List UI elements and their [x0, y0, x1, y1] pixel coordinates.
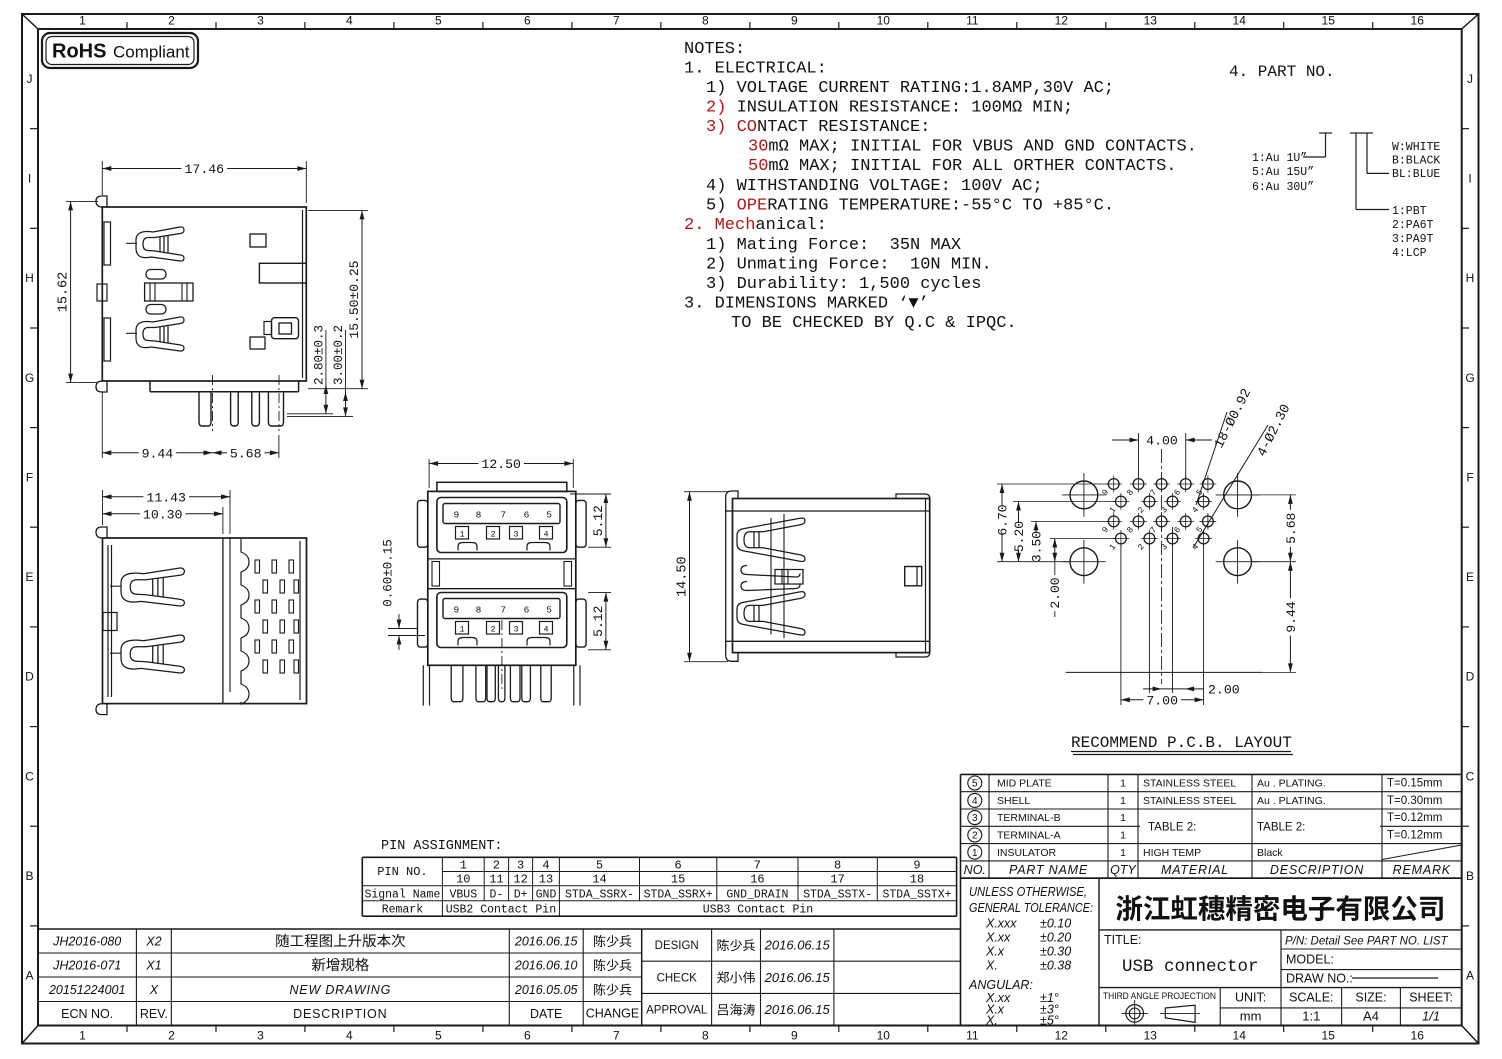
- svg-text:±0.38: ±0.38: [1040, 959, 1071, 973]
- svg-text:DESCRIPTION: DESCRIPTION: [1270, 863, 1364, 877]
- view A: side profile of USB connector: [96, 196, 306, 431]
- svg-text:X.xx: X.xx: [985, 931, 1011, 945]
- svg-text:1:PBT: 1:PBT: [1392, 205, 1427, 218]
- svg-text:13: 13: [1144, 1029, 1158, 1043]
- dim 0.60: [382, 539, 426, 650]
- svg-text:10.30: 10.30: [143, 507, 183, 522]
- svg-text:7: 7: [613, 14, 620, 28]
- svg-text:PART NAME: PART NAME: [1009, 863, 1088, 877]
- svg-text:±0.10: ±0.10: [1040, 917, 1071, 931]
- dim 4.00: [1138, 433, 1140, 478]
- svg-text:±0.30: ±0.30: [1040, 945, 1071, 959]
- svg-text:5.68: 5.68: [1284, 513, 1299, 544]
- svg-text:9: 9: [454, 605, 460, 616]
- svg-text:2016.06.15: 2016.06.15: [514, 935, 578, 949]
- svg-text:3.00±0.2: 3.00±0.2: [332, 325, 346, 385]
- svg-text:2.80±0.3: 2.80±0.3: [313, 325, 327, 385]
- svg-text:18: 18: [910, 873, 924, 887]
- view C: front view dual stacked USB: [418, 482, 587, 705]
- svg-text:X.: X.: [985, 959, 998, 973]
- svg-text:2.00: 2.00: [1048, 577, 1063, 608]
- svg-text:G: G: [25, 371, 34, 385]
- svg-text:16: 16: [1411, 1029, 1425, 1043]
- svg-text:2: 2: [972, 831, 978, 842]
- svg-text:GND: GND: [536, 889, 557, 902]
- svg-text:X.x: X.x: [985, 945, 1005, 959]
- svg-text:QTY: QTY: [1110, 863, 1137, 877]
- svg-text:3: 3: [257, 14, 264, 28]
- svg-text:MATERIAL: MATERIAL: [1161, 863, 1229, 877]
- svg-text:RECOMMEND P.C.B. LAYOUT: RECOMMEND P.C.B. LAYOUT: [1071, 734, 1292, 752]
- svg-text:4: 4: [346, 14, 353, 28]
- svg-text:F: F: [1466, 470, 1473, 484]
- svg-text:8: 8: [476, 510, 482, 521]
- svg-text:A4: A4: [1363, 1009, 1379, 1024]
- svg-text:6:Au 30U”: 6:Au 30U”: [1252, 181, 1314, 194]
- svg-text:1: 1: [460, 859, 467, 873]
- svg-text:T=0.30mm: T=0.30mm: [1387, 795, 1442, 807]
- recommended PCB layout: [995, 387, 1299, 709]
- svg-text:12: 12: [1055, 14, 1069, 28]
- svg-text:±5°: ±5°: [1040, 1014, 1059, 1028]
- dims 2.80 3.00: [287, 325, 353, 416]
- dim 17.46: [102, 161, 306, 203]
- svg-text:D+: D+: [514, 889, 528, 902]
- svg-text:B:BLACK: B:BLACK: [1392, 155, 1440, 168]
- svg-text:11: 11: [966, 1029, 979, 1043]
- svg-text:Au . PLATING.: Au . PLATING.: [1257, 795, 1326, 807]
- svg-text:J: J: [1467, 72, 1473, 86]
- dims 5.12 5.12: [570, 494, 611, 650]
- svg-text:6: 6: [524, 510, 530, 521]
- svg-text:6: 6: [674, 859, 681, 873]
- dim 12.50: [429, 457, 573, 488]
- svg-text:4: 4: [346, 1029, 353, 1043]
- dims 9.44 5.68: [102, 392, 279, 461]
- svg-text:1:1: 1:1: [1302, 1009, 1320, 1024]
- svg-text:2: 2: [490, 530, 495, 540]
- svg-text:3.50: 3.50: [1029, 531, 1044, 562]
- svg-text:SHELL: SHELL: [997, 795, 1030, 807]
- svg-text:3: 3: [517, 859, 524, 873]
- svg-text:3: 3: [972, 813, 978, 824]
- svg-text:4) WITHSTANDING VOLTAGE: 100V: 4) WITHSTANDING VOLTAGE: 100V AC;: [706, 177, 1043, 196]
- svg-text:5) OPERATING TEMPERATURE:-55°C: 5) OPERATING TEMPERATURE:-55°C TO +85°C.: [706, 197, 1114, 216]
- dims 11.43 10.30: [103, 490, 231, 534]
- svg-text:2016.06.15: 2016.06.15: [764, 1002, 831, 1017]
- svg-text:UNIT:: UNIT:: [1235, 991, 1266, 1005]
- svg-text:15: 15: [1322, 14, 1336, 28]
- svg-text:DATE: DATE: [530, 1007, 562, 1021]
- svg-text:USB3 Contact Pin: USB3 Contact Pin: [703, 904, 813, 917]
- svg-text:4:LCP: 4:LCP: [1392, 247, 1427, 260]
- svg-text:X2: X2: [145, 935, 161, 949]
- svg-text:USB2 Contact Pin: USB2 Contact Pin: [446, 904, 556, 917]
- svg-text:VBUS: VBUS: [449, 889, 477, 902]
- pin assignment table: [362, 839, 956, 917]
- svg-text:REMARK: REMARK: [1393, 863, 1451, 877]
- svg-text:15: 15: [671, 873, 685, 887]
- svg-text:6.70: 6.70: [995, 504, 1010, 535]
- svg-text:USB connector: USB connector: [1122, 957, 1259, 977]
- svg-text:NEW DRAWING: NEW DRAWING: [289, 983, 391, 997]
- svg-text:STDA_SSTX-: STDA_SSTX-: [803, 889, 872, 902]
- svg-text:0.60±0.15: 0.60±0.15: [382, 539, 396, 607]
- svg-text:T=0.15mm: T=0.15mm: [1387, 778, 1442, 790]
- svg-text:RoHS: RoHS: [52, 41, 106, 63]
- svg-text:DRAW NO.:: DRAW NO.:: [1286, 972, 1353, 986]
- svg-text:TO BE CHECKED BY Q.C & IPQC.: TO BE CHECKED BY Q.C & IPQC.: [731, 314, 1017, 333]
- view D: rear side view: [726, 491, 930, 661]
- svg-text:A: A: [25, 969, 33, 983]
- svg-text:1:Au 1U”: 1:Au 1U”: [1252, 152, 1307, 165]
- svg-text:DESIGN: DESIGN: [655, 940, 699, 952]
- svg-text:3) CONTACT RESISTANCE:: 3) CONTACT RESISTANCE:: [706, 118, 930, 137]
- svg-text:TERMINAL-B: TERMINAL-B: [997, 812, 1061, 824]
- svg-text:4: 4: [542, 859, 549, 873]
- svg-text:TERMINAL-A: TERMINAL-A: [997, 830, 1061, 842]
- svg-text:I: I: [1468, 172, 1471, 186]
- svg-text:16: 16: [1411, 14, 1425, 28]
- svg-text:14: 14: [1233, 14, 1247, 28]
- leader 4-2.30: [1193, 425, 1268, 548]
- svg-text:14.50: 14.50: [676, 556, 691, 597]
- svg-text:X.: X.: [985, 1014, 998, 1028]
- RoHS compliant badge: [42, 33, 198, 68]
- svg-text:E: E: [25, 570, 33, 584]
- svg-text:DESCRIPTION: DESCRIPTION: [293, 1007, 387, 1021]
- svg-text:11.43: 11.43: [146, 490, 186, 505]
- leader 18-0.92: [1196, 412, 1227, 505]
- svg-text:5: 5: [435, 1029, 442, 1043]
- svg-text:11: 11: [966, 14, 979, 28]
- svg-text:3. DIMENSIONS MARKED ‘▼’: 3. DIMENSIONS MARKED ‘▼’: [684, 295, 929, 314]
- dim 15.50: [308, 210, 368, 388]
- svg-text:2: 2: [168, 14, 175, 28]
- svg-text:5.68: 5.68: [230, 446, 262, 461]
- svg-text:15.50±0.25: 15.50±0.25: [347, 261, 362, 339]
- svg-text:B: B: [1466, 869, 1474, 883]
- svg-text:Remark: Remark: [382, 904, 424, 917]
- svg-text:J: J: [27, 72, 33, 86]
- svg-text:10: 10: [877, 14, 891, 28]
- svg-text:3: 3: [513, 625, 518, 635]
- svg-text:10: 10: [456, 873, 470, 887]
- svg-text:3:PA9T: 3:PA9T: [1392, 233, 1434, 246]
- svg-text:THIRD ANGLE PROJECTION: THIRD ANGLE PROJECTION: [1103, 991, 1216, 1002]
- svg-text:2: 2: [493, 859, 500, 873]
- svg-text:3: 3: [257, 1029, 264, 1043]
- svg-text:B: B: [25, 869, 33, 883]
- svg-text:15.62: 15.62: [57, 272, 72, 313]
- svg-text:STDA_SSRX+: STDA_SSRX+: [644, 889, 713, 902]
- svg-text:11: 11: [489, 873, 503, 887]
- svg-text:13: 13: [539, 873, 553, 887]
- svg-text:4. PART NO.: 4. PART NO.: [1229, 63, 1335, 81]
- dim 14.50: [676, 492, 729, 662]
- svg-text:3: 3: [513, 530, 518, 540]
- notes text block: [684, 40, 1197, 333]
- svg-text:1: 1: [1120, 795, 1126, 807]
- svg-text:15: 15: [1322, 1029, 1336, 1043]
- svg-text:X1: X1: [145, 959, 161, 973]
- view B: top view: [96, 527, 307, 715]
- svg-text:12: 12: [513, 873, 527, 887]
- svg-text:X.xxx: X.xxx: [985, 917, 1017, 931]
- svg-text:GENERAL TOLERANCE:: GENERAL TOLERANCE:: [969, 901, 1093, 915]
- svg-text:7: 7: [500, 510, 506, 521]
- svg-text:1: 1: [1120, 812, 1126, 824]
- svg-text:8: 8: [702, 14, 709, 28]
- svg-text:UNLESS OTHERWISE,: UNLESS OTHERWISE,: [969, 885, 1087, 899]
- svg-text:50mΩ MAX; INITIAL FOR ALL ORTH: 50mΩ MAX; INITIAL FOR ALL ORTHER CONTACT…: [748, 157, 1176, 176]
- svg-text:2) Unmating Force: 10N MIN.: 2) Unmating Force: 10N MIN.: [706, 256, 992, 275]
- svg-text:CHANGE: CHANGE: [586, 1007, 639, 1021]
- dim 15.62: [57, 201, 98, 382]
- svg-text:NOTES:: NOTES:: [684, 40, 745, 59]
- svg-text:1: 1: [79, 14, 86, 28]
- right dims 5.68 9.44: [1252, 494, 1296, 496]
- svg-text:2016.05.05: 2016.05.05: [514, 983, 578, 997]
- title RECOMMEND P.C.B. LAYOUT: [1071, 734, 1293, 755]
- svg-text:±0.20: ±0.20: [1040, 931, 1071, 945]
- svg-text:TITLE:: TITLE:: [1104, 933, 1142, 947]
- svg-text:Compliant: Compliant: [113, 43, 190, 62]
- svg-text:6: 6: [524, 605, 530, 616]
- svg-text:4.00: 4.00: [1146, 434, 1178, 449]
- svg-text:4: 4: [972, 796, 978, 807]
- svg-text:17.46: 17.46: [185, 162, 225, 177]
- left dims 6.70 5.20 3.50 2.00: [1001, 484, 1003, 562]
- svg-text:5: 5: [435, 14, 442, 28]
- svg-text:STDA_SSRX-: STDA_SSRX-: [565, 889, 634, 902]
- 4 big mounting holes: [1070, 481, 1098, 509]
- svg-text:SHEET:: SHEET:: [1409, 991, 1453, 1005]
- svg-text:BL:BLUE: BL:BLUE: [1392, 168, 1440, 181]
- part number legend: [1229, 63, 1440, 260]
- svg-text:STDA_SSTX+: STDA_SSTX+: [882, 889, 951, 902]
- svg-text:10: 10: [877, 1029, 891, 1043]
- svg-text:P/N: Detail See PART NO. LIST: P/N: Detail See PART NO. LIST: [1285, 936, 1449, 948]
- svg-text:8: 8: [702, 1029, 709, 1043]
- svg-text:5: 5: [596, 859, 603, 873]
- svg-text:2016.06.15: 2016.06.15: [764, 970, 831, 985]
- svg-text:3) Durability: 1,500 cycles: 3) Durability: 1,500 cycles: [706, 275, 981, 294]
- svg-text:5: 5: [546, 605, 552, 616]
- svg-text:GND_DRAIN: GND_DRAIN: [726, 889, 788, 902]
- svg-text:17: 17: [830, 873, 844, 887]
- svg-text:H: H: [25, 271, 34, 285]
- bottom dims 2.00 7.00: [1120, 544, 1122, 705]
- svg-text:Signal Name: Signal Name: [364, 889, 440, 902]
- svg-text:6: 6: [524, 1029, 531, 1043]
- svg-text:2016.06.15: 2016.06.15: [764, 938, 831, 953]
- svg-text:5.12: 5.12: [591, 606, 606, 637]
- svg-text:2. Mechanical:: 2. Mechanical:: [684, 216, 827, 235]
- svg-text:7: 7: [613, 1029, 620, 1043]
- svg-text:1: 1: [459, 530, 464, 540]
- svg-text:1) VOLTAGE CURRENT RATING:1.8A: 1) VOLTAGE CURRENT RATING:1.8AMP,30V AC;: [706, 79, 1114, 98]
- svg-text:W:WHITE: W:WHITE: [1392, 141, 1440, 154]
- svg-text:7: 7: [500, 605, 506, 616]
- svg-text:STAINLESS STEEL: STAINLESS STEEL: [1143, 778, 1236, 790]
- svg-text:REV.: REV.: [140, 1007, 168, 1021]
- svg-text:9.44: 9.44: [142, 446, 174, 461]
- svg-text:C: C: [1466, 769, 1475, 783]
- svg-text:MODEL:: MODEL:: [1286, 953, 1334, 967]
- svg-text:MID PLATE: MID PLATE: [997, 778, 1052, 790]
- svg-text:9: 9: [791, 14, 798, 28]
- svg-text:2) INSULATION RESISTANCE: 100M: 2) INSULATION RESISTANCE: 100MΩ MIN;: [706, 99, 1073, 118]
- svg-text:2: 2: [168, 1029, 175, 1043]
- svg-text:PIN ASSIGNMENT:: PIN ASSIGNMENT:: [381, 839, 503, 854]
- svg-text:T=0.12mm: T=0.12mm: [1387, 812, 1442, 824]
- svg-text:PIN NO.: PIN NO.: [377, 865, 427, 879]
- svg-text:5.12: 5.12: [591, 505, 606, 536]
- svg-text:12.50: 12.50: [481, 457, 521, 472]
- svg-text:1) Mating Force: 35N MAX: 1) Mating Force: 35N MAX: [706, 236, 961, 255]
- svg-text:9: 9: [454, 510, 460, 521]
- 18 small pin holes: [1108, 479, 1119, 490]
- company name: [1116, 895, 1443, 921]
- svg-text:T=0.12mm: T=0.12mm: [1387, 830, 1442, 842]
- svg-text:A: A: [1466, 969, 1474, 983]
- svg-text:TABLE 2:: TABLE 2:: [1257, 821, 1305, 833]
- svg-text:2.00: 2.00: [1208, 683, 1240, 698]
- svg-text:5: 5: [546, 510, 552, 521]
- svg-text:G: G: [1465, 371, 1474, 385]
- svg-text:1/1: 1/1: [1422, 1009, 1440, 1024]
- svg-text:SCALE:: SCALE:: [1289, 991, 1333, 1005]
- svg-text:16: 16: [750, 873, 764, 887]
- svg-text:5.20: 5.20: [1012, 521, 1027, 552]
- svg-text:INSULATOR: INSULATOR: [997, 847, 1057, 859]
- svg-text:5: 5: [972, 779, 978, 790]
- svg-text:2: 2: [490, 625, 495, 635]
- svg-text:9.44: 9.44: [1284, 601, 1299, 632]
- svg-text:F: F: [26, 470, 33, 484]
- svg-text:Black: Black: [1257, 847, 1283, 859]
- svg-text:1: 1: [1120, 830, 1126, 842]
- parts list table: [961, 774, 1462, 878]
- svg-text:1: 1: [1120, 778, 1126, 790]
- svg-text:JH2016-071: JH2016-071: [52, 959, 121, 973]
- svg-text:1: 1: [972, 848, 978, 859]
- svg-text:2:PA6T: 2:PA6T: [1392, 219, 1434, 232]
- svg-text:D-: D-: [489, 889, 503, 902]
- svg-text:7: 7: [754, 859, 761, 873]
- svg-text:13: 13: [1144, 14, 1158, 28]
- title block: [961, 878, 1462, 1027]
- svg-text:D: D: [1466, 670, 1475, 684]
- svg-text:ANGULAR:: ANGULAR:: [968, 978, 1033, 992]
- approval block: [642, 929, 961, 1026]
- svg-text:14: 14: [592, 873, 606, 887]
- svg-text:Au . PLATING.: Au . PLATING.: [1257, 778, 1326, 790]
- svg-text:20151224001: 20151224001: [48, 983, 125, 997]
- svg-text:APPROVAL: APPROVAL: [646, 1005, 708, 1017]
- svg-text:6: 6: [524, 14, 531, 28]
- svg-text:7.00: 7.00: [1146, 693, 1178, 708]
- svg-text:ECN NO.: ECN NO.: [61, 1007, 113, 1021]
- svg-text:E: E: [1466, 570, 1474, 584]
- svg-text:JH2016-080: JH2016-080: [52, 935, 121, 949]
- svg-text:SIZE:: SIZE:: [1355, 991, 1386, 1005]
- svg-text:12: 12: [1055, 1029, 1069, 1043]
- svg-text:9: 9: [913, 859, 920, 873]
- svg-text:8: 8: [834, 859, 841, 873]
- svg-text:CHECK: CHECK: [657, 972, 698, 984]
- svg-text:H: H: [1466, 271, 1475, 285]
- svg-text:30mΩ MAX; INITIAL FOR VBUS AND: 30mΩ MAX; INITIAL FOR VBUS AND GND CONTA…: [748, 138, 1197, 157]
- revision table: [38, 929, 642, 1026]
- svg-text:2016.06.10: 2016.06.10: [514, 959, 578, 973]
- svg-text:C: C: [25, 769, 34, 783]
- svg-text:1: 1: [1120, 847, 1126, 859]
- svg-text:14: 14: [1233, 1029, 1247, 1043]
- svg-text:I: I: [28, 172, 31, 186]
- svg-text:mm: mm: [1240, 1009, 1262, 1024]
- svg-text:1. ELECTRICAL:: 1. ELECTRICAL:: [684, 60, 827, 79]
- svg-text:NO.: NO.: [964, 863, 986, 877]
- svg-text:HIGH TEMP: HIGH TEMP: [1143, 847, 1201, 859]
- svg-text:1: 1: [459, 625, 464, 635]
- svg-text:4: 4: [543, 530, 548, 540]
- svg-text:D: D: [25, 670, 34, 684]
- svg-text:4: 4: [543, 625, 548, 635]
- svg-text:X: X: [149, 983, 159, 997]
- svg-text:1: 1: [79, 1029, 86, 1043]
- svg-text:STAINLESS STEEL: STAINLESS STEEL: [1143, 795, 1236, 807]
- svg-text:TABLE 2:: TABLE 2:: [1148, 821, 1196, 833]
- svg-text:9: 9: [791, 1029, 798, 1043]
- svg-text:5:Au 15U”: 5:Au 15U”: [1252, 166, 1314, 179]
- svg-text:8: 8: [476, 605, 482, 616]
